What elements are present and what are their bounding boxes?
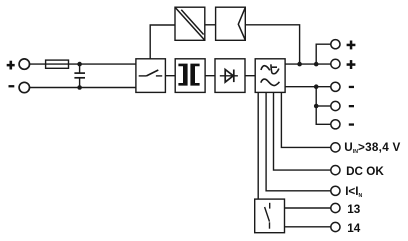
- svg-text:UIN>38,4 V: UIN>38,4 V: [344, 141, 400, 155]
- svg-text:14: 14: [347, 222, 361, 235]
- svg-text:DC OK: DC OK: [346, 165, 384, 178]
- svg-text:13: 13: [347, 203, 361, 216]
